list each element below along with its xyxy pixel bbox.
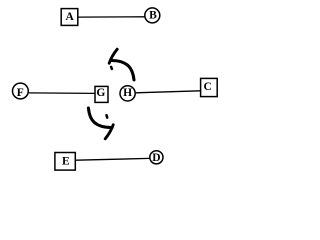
svg-text:E: E <box>62 156 70 168</box>
svg-text:C: C <box>204 81 212 93</box>
svg-text:D: D <box>152 152 160 164</box>
svg-text:H: H <box>123 87 132 99</box>
svg-text:B: B <box>149 9 157 21</box>
svg-text:F: F <box>17 87 24 99</box>
svg-text:A: A <box>65 11 74 23</box>
svg-text:G: G <box>96 87 105 99</box>
